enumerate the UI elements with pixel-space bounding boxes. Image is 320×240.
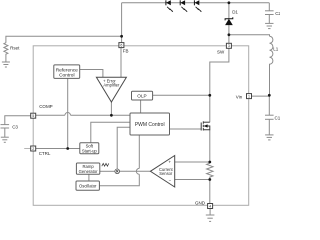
svg-text:C3: C3: [12, 125, 18, 130]
svg-text:5: 5: [32, 114, 34, 118]
svg-text:6: 6: [120, 44, 122, 48]
svg-text:Reference: Reference: [56, 68, 78, 74]
svg-text:2: 2: [32, 147, 34, 151]
svg-text:Control: Control: [59, 73, 74, 79]
svg-text:CTRL: CTRL: [39, 151, 51, 156]
svg-text:+: +: [169, 159, 172, 164]
svg-text:C2: C2: [275, 11, 280, 16]
svg-text:Amplifier: Amplifier: [103, 83, 120, 88]
svg-text:4: 4: [209, 204, 211, 208]
svg-text:3: 3: [228, 44, 230, 48]
svg-text:Vin: Vin: [236, 94, 243, 99]
svg-text:Rset: Rset: [10, 46, 20, 51]
svg-text:C1: C1: [275, 115, 281, 120]
svg-text:Sensor: Sensor: [159, 171, 173, 176]
svg-text:FB: FB: [123, 48, 129, 53]
svg-text:Oscillator: Oscillator: [79, 183, 97, 188]
svg-text:Start-up: Start-up: [82, 148, 98, 153]
svg-text:1: 1: [248, 95, 250, 99]
svg-text:COMP: COMP: [39, 104, 53, 109]
svg-text:D1: D1: [232, 10, 238, 15]
svg-text:L1: L1: [273, 46, 279, 51]
svg-text:GND: GND: [195, 200, 206, 205]
svg-text:OLP: OLP: [137, 93, 146, 98]
svg-text:PWM Control: PWM Control: [135, 122, 165, 128]
svg-text:Generator: Generator: [79, 169, 98, 174]
svg-text:SW: SW: [217, 50, 225, 55]
svg-text:−: −: [169, 177, 172, 182]
